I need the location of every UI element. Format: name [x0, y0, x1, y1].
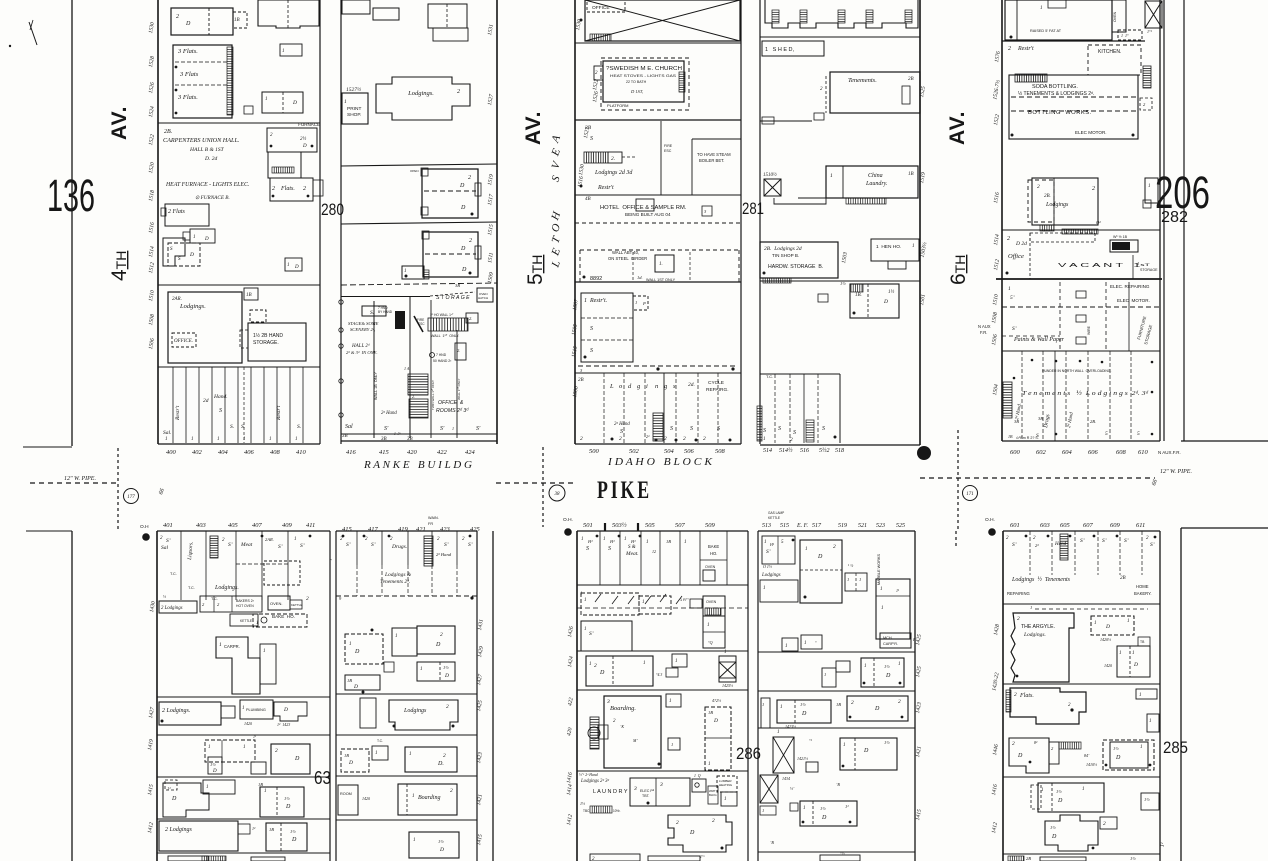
svg-text:Lodgings: Lodgings	[1045, 202, 1069, 208]
svg-text:Lodgings 2ᵈ 3ᵈ: Lodgings 2ᵈ 3ᵈ	[580, 778, 610, 784]
svg-text:S: S	[717, 426, 720, 432]
svg-text:S.: S.	[297, 424, 301, 430]
small dwellings lot 1514	[190, 229, 215, 243]
svg-text:1: 1	[589, 662, 592, 667]
svg-text:1B: 1B	[246, 293, 252, 298]
svg-text:1: 1	[707, 623, 710, 628]
svg-text:3B: 3B	[407, 437, 413, 442]
svg-text:2: 2	[619, 436, 622, 442]
hotel hatch bar	[584, 152, 608, 163]
svg-text:1½: 1½	[1144, 797, 1150, 802]
svg-text:N AUX: N AUX	[978, 324, 991, 329]
svg-text:O.H: O.H	[140, 524, 149, 530]
svg-text:HOME: HOME	[1136, 584, 1149, 589]
china laundry	[826, 166, 918, 198]
svg-text:1: 1	[635, 300, 637, 305]
svg-text:S’: S’	[1124, 538, 1129, 544]
lodgings 2B block282	[1032, 178, 1098, 225]
svg-text:BAKERS 2³: BAKERS 2³	[236, 599, 255, 603]
svg-text:1: 1	[675, 659, 678, 664]
svg-text:D: D	[171, 796, 177, 802]
row line 777b	[1003, 776, 1160, 778]
svg-text:D.: D.	[437, 761, 444, 767]
svg-text:BOILER BET.: BOILER BET.	[699, 158, 724, 163]
col2 row3	[761, 698, 770, 728]
mid row dwellings	[205, 740, 255, 762]
svg-text:410: 410	[296, 449, 307, 456]
svg-text:401: 401	[163, 522, 173, 529]
svg-text:D: D	[1133, 662, 1138, 668]
svg-text:422: 422	[437, 449, 448, 456]
svg-text:3B: 3B	[1014, 419, 1019, 424]
oven tower	[1112, 0, 1126, 32]
svg-text:1½: 1½	[884, 664, 890, 669]
svg-text:S’: S’	[1150, 542, 1155, 548]
col2 row2	[822, 668, 836, 687]
svg-text:1: 1	[880, 587, 883, 592]
svg-text:1½: 1½	[840, 281, 846, 286]
svg-text:416: 416	[346, 449, 357, 456]
stage S box	[362, 306, 386, 316]
svg-text:2½: 2½	[300, 137, 307, 142]
svg-text:2.: 2.	[611, 156, 615, 162]
svg-text:ELEC. REPAIRING: ELEC. REPAIRING	[1110, 284, 1150, 289]
svg-text:521: 521	[858, 523, 867, 529]
svg-text:Meat.: Meat.	[625, 551, 639, 557]
svg-text:ROOM: ROOM	[340, 792, 352, 796]
svg-text:506: 506	[684, 448, 695, 455]
svg-text:2: 2	[594, 663, 597, 669]
svg-text:1B: 1B	[269, 827, 274, 832]
svg-text:½ TENEMENTS & LODGINGS 2ᵈ.: ½ TENEMENTS & LODGINGS 2ᵈ.	[1018, 90, 1094, 97]
row line col1 651	[577, 650, 748, 652]
tenements 281	[830, 72, 920, 113]
svg-text:CARPR.: CARPR.	[224, 644, 240, 649]
lot line y165 block280 right col	[341, 164, 497, 166]
svg-text:1: 1	[242, 706, 245, 711]
svg-text:R A N K E B U I L D G: R A N K E B U I L D G	[363, 460, 472, 471]
svg-text:403: 403	[196, 522, 207, 529]
svg-text:2: 2	[703, 436, 706, 442]
lone houses right	[1136, 689, 1157, 699]
svg-text:600: 600	[1010, 449, 1021, 456]
row 285 lower1	[1038, 783, 1104, 812]
svg-text:1½: 1½	[800, 702, 806, 707]
street: Pike upper edge dashes (water pipe line left)	[30, 482, 118, 484]
svg-text:HOT OVEN: HOT OVEN	[236, 604, 254, 608]
svg-text:?SWEDISH M E. CHURCH: ?SWEDISH M E. CHURCH	[606, 66, 682, 72]
svg-text:STORAGE.: STORAGE.	[253, 340, 279, 346]
hardware storage building	[760, 242, 838, 278]
svg-text:S: S	[586, 546, 589, 552]
svg-text:°4.3: °4.3	[656, 673, 662, 677]
svg-text:Restr't: Restr't	[276, 405, 282, 421]
svg-text:⊙¹Rm R 2? S.: ⊙¹Rm R 2? S.	[1016, 436, 1039, 440]
svg-text:1³ 1423: 1³ 1423	[277, 722, 290, 727]
row 656 dwellings D	[586, 656, 653, 686]
svg-text:508: 508	[715, 448, 726, 455]
valve circle 38	[549, 485, 565, 501]
svg-text:1 HEN HO.: 1 HEN HO.	[876, 244, 901, 250]
svg-text:HEAT STOVES - LIGHTS GAS: HEAT STOVES - LIGHTS GAS	[610, 74, 677, 78]
svg-text:500: 500	[589, 448, 600, 455]
svg-text:Hand.: Hand.	[213, 394, 228, 400]
svg-text:D: D	[1057, 798, 1063, 804]
svg-text:i: i	[646, 383, 648, 390]
row line 771	[577, 770, 748, 772]
svg-text:1: 1	[420, 667, 423, 672]
svg-text:406: 406	[244, 449, 255, 456]
svg-text:1 1°: 1 1°	[1121, 33, 1129, 38]
svg-text:1: 1	[375, 751, 378, 756]
svg-text:D. 2d: D. 2d	[204, 156, 217, 162]
svg-text:S’: S’	[278, 544, 283, 550]
svg-text:1: 1	[584, 627, 587, 632]
svg-text:1421½: 1421½	[797, 756, 808, 761]
svg-text:2: 2	[275, 748, 278, 754]
svg-text:OPEN: OPEN	[410, 169, 419, 173]
svg-text:1½: 1½	[1113, 746, 1119, 751]
third hand circle label	[430, 353, 435, 358]
stage black rect	[395, 311, 405, 329]
svg-text:D: D	[885, 673, 891, 679]
svg-text:1: 1	[804, 641, 807, 646]
svg-text:1: 1	[762, 808, 764, 813]
svg-text:P: P	[642, 301, 646, 306]
svg-text:1: 1	[724, 650, 727, 655]
lower-right block outline	[1002, 531, 1004, 861]
row 285 lower2	[1045, 815, 1098, 851]
svg-text:2: 2	[457, 89, 460, 95]
svg-text:ESC: ESC	[664, 149, 672, 153]
svg-text:1: 1	[243, 437, 246, 442]
svg-text:OFFICE &: OFFICE &	[438, 400, 464, 406]
2 lodgings row 700	[159, 702, 221, 725]
svg-text:1.: 1.	[659, 262, 663, 267]
svg-text:505: 505	[645, 522, 656, 529]
svg-text:Laundry.: Laundry.	[865, 181, 888, 187]
svg-text:1: 1	[763, 437, 766, 442]
svg-text:T.C.: T.C.	[170, 572, 177, 576]
svg-text:CYCLE: CYCLE	[708, 380, 724, 386]
svg-text:S.: S.	[241, 424, 245, 430]
svg-text:D: D	[460, 205, 466, 211]
svg-text:TBT.: TBT.	[642, 794, 650, 798]
carpenter shop T building	[216, 637, 260, 694]
svg-text:1: 1	[395, 634, 398, 639]
svg-text:S: S	[690, 426, 693, 432]
svg-text:1: 1	[777, 730, 780, 735]
annex with hatch	[402, 266, 424, 279]
svg-text:WALL 1B ONLY: WALL 1B ONLY	[374, 372, 378, 400]
svg-text:1: 1	[684, 540, 687, 545]
svg-text:8892: 8892	[590, 276, 602, 282]
big dwelling bottom mid	[668, 815, 732, 852]
svg-text:1: 1	[1119, 651, 1122, 656]
svg-text:S’: S’	[300, 543, 305, 549]
svg-text:L A U N D R Y: L A U N D R Y	[593, 789, 628, 795]
building lot 1522 small pair	[262, 92, 303, 113]
svg-text:D: D	[461, 267, 467, 273]
svg-text:T.C.: T.C.	[377, 739, 383, 743]
svg-text:HATCH: HATCH	[478, 296, 488, 300]
svg-text:D: D	[354, 649, 360, 655]
X box row 656	[719, 656, 736, 682]
svg-text:Tenements 2ᵈ.: Tenements 2ᵈ.	[380, 579, 410, 585]
restrt stack	[581, 293, 633, 362]
bottling east annex	[1143, 66, 1151, 88]
svg-text:S’: S’	[468, 542, 473, 548]
2 lodgings bottom row	[159, 821, 238, 851]
svg-text:513: 513	[762, 523, 771, 529]
pipe junction 6th/Pike	[957, 430, 959, 530]
Swedish M E Church	[601, 58, 689, 110]
svg-text:1: 1	[646, 540, 649, 545]
svg-text:BAKERY.: BAKERY.	[1134, 591, 1152, 596]
svg-text:1 R°°: 1 R°°	[680, 598, 689, 602]
street: 4th Ave left boundary (lower)	[26, 530, 72, 532]
svg-text:N AUX.F.R.: N AUX.F.R.	[1158, 450, 1181, 455]
svg-text:1420: 1420	[1104, 663, 1112, 668]
svg-text:H¹: H¹	[769, 542, 775, 547]
svg-text:OFFICE: OFFICE	[592, 5, 610, 11]
svg-text:Lodgings: Lodgings	[761, 573, 781, 578]
svg-text:2B: 2B	[1120, 576, 1126, 581]
svg-text:S: S	[590, 348, 593, 354]
svg-text:HEAT FURNACE - LIGHTS ELEC.: HEAT FURNACE - LIGHTS ELEC.	[165, 182, 249, 188]
svg-text:AV.: AV.	[946, 110, 969, 145]
bottom hatch	[202, 856, 226, 861]
svg-text:3B: 3B	[1038, 416, 1043, 421]
svg-text:1: 1	[295, 437, 298, 442]
svg-text:T.C.: T.C.	[766, 374, 773, 379]
svg-text:ON STEEL GIRDER: ON STEEL GIRDER	[608, 256, 647, 261]
svg-text:°Q: °Q	[708, 640, 713, 645]
svg-text:1: 1	[413, 838, 416, 843]
svg-text:THE ARGYLE.: THE ARGYLE.	[1021, 624, 1055, 630]
svg-text:1: 1	[294, 537, 297, 542]
svg-text:2: 2	[664, 436, 667, 442]
svg-text:12" W. PIPE.: 12" W. PIPE.	[64, 476, 96, 482]
svg-text:T.C.: T.C.	[211, 597, 218, 601]
svg-text:1425½: 1425½	[722, 683, 733, 688]
buildings lot 1512 cluster	[163, 238, 185, 266]
svg-text:D: D	[713, 718, 718, 724]
svg-text:2: 2	[683, 436, 686, 442]
svg-text:1: 1	[1148, 184, 1151, 189]
bottom partial row 285	[1003, 853, 1160, 855]
svg-text:603: 603	[1040, 522, 1051, 529]
svg-text:H¹: H¹	[630, 539, 636, 544]
svg-text:1: 1	[898, 662, 901, 667]
svg-text:2 Lodgings.: 2 Lodgings.	[162, 708, 190, 714]
fire escape diagonal	[414, 316, 423, 332]
svg-text:2ᵈ & 3ᵈ IN ONE.: 2ᵈ & 3ᵈ IN ONE.	[346, 350, 378, 355]
svg-text:2: 2	[468, 175, 471, 181]
svg-text:1: 1	[269, 437, 272, 442]
svg-text:1½: 1½	[210, 762, 216, 767]
line under storage	[760, 280, 920, 282]
svg-text:1: 1	[1008, 286, 1011, 292]
svg-text:W¹ ½ 1B: W¹ ½ 1B	[1113, 235, 1128, 239]
shop lots 285	[1029, 531, 1031, 575]
svg-text:1: 1	[763, 586, 766, 591]
svg-text:TB: TB	[1140, 640, 1145, 644]
svg-text:REPAIRING: REPAIRING	[1007, 591, 1030, 596]
corner scratch marks	[29, 22, 37, 45]
svg-text:D: D	[189, 252, 194, 258]
svg-text:1½: 1½	[820, 806, 826, 811]
svg-text:D: D	[348, 760, 353, 766]
big warehouse with cross bracing	[585, 0, 740, 41]
theater walls	[373, 301, 375, 438]
hydrant dot at 6th and Pike	[917, 446, 931, 460]
svg-text:611: 611	[1136, 522, 1145, 529]
svg-text:BAKE: BAKE	[708, 544, 719, 549]
row line 690-691	[577, 689, 748, 691]
svg-text:Restr't: Restr't	[175, 405, 181, 421]
hotel office line	[575, 194, 741, 196]
lower-left col2 lots	[356, 531, 358, 565]
svg-text:4B: 4B	[585, 197, 591, 202]
svg-text:2d.: 2d.	[688, 382, 695, 388]
svg-text:2: 2	[1007, 236, 1010, 242]
svg-text:3B: 3B	[455, 283, 460, 288]
right inner walls	[430, 300, 432, 438]
svg-text:D: D	[292, 100, 297, 106]
svg-text:2: 2	[1017, 616, 1020, 622]
svg-text:2B.: 2B.	[164, 129, 172, 135]
svg-text:KITCHEN.: KITCHEN.	[1098, 49, 1121, 55]
svg-text:1½: 1½	[438, 839, 444, 844]
svg-text:2ᵈ Hand: 2ᵈ Hand	[381, 410, 397, 416]
svg-text:D: D	[801, 711, 807, 717]
svg-text:⊙ FURNACE B.: ⊙ FURNACE B.	[195, 195, 230, 201]
svg-text:1: 1	[1132, 651, 1135, 656]
svg-text:602: 602	[1036, 449, 1047, 456]
svg-text:D: D	[1051, 834, 1057, 840]
col2 row line 652	[758, 651, 915, 653]
svg-text:605: 605	[1060, 522, 1071, 529]
svg-text:D: D	[444, 673, 449, 679]
svg-text:1½: 1½	[290, 829, 296, 834]
svg-text:½’: ½’	[790, 786, 795, 791]
barn building	[850, 284, 899, 318]
line under top building	[1002, 40, 1145, 42]
svg-text:HALL B & 1ST: HALL B & 1ST	[189, 147, 225, 153]
svg-text:515: 515	[780, 523, 789, 529]
svg-text:SODA BOTTLING.: SODA BOTTLING.	[1032, 84, 1078, 90]
lot line under warehouse	[575, 42, 741, 44]
svg-text:HOTEL OFFICE & SAMPLE RM.: HOTEL OFFICE & SAMPLE RM.	[600, 205, 687, 211]
svg-text:2d: 2d	[203, 398, 209, 404]
svg-text:1: 1	[282, 49, 285, 54]
svg-text:1: 1	[764, 540, 767, 545]
svg-text:REPAIRG.: REPAIRG.	[706, 387, 729, 393]
svg-text:1 Q: 1 Q	[694, 774, 701, 778]
svg-text:WIRE: WIRE	[1087, 325, 1091, 335]
svg-text:¹ ½: ¹ ½	[848, 563, 853, 568]
svg-text:TBC: TBC	[583, 809, 590, 813]
svg-text:H¹: H¹	[587, 539, 593, 544]
pipe junction 4th/Pike	[117, 448, 119, 531]
svg-text:FR: FR	[428, 522, 433, 526]
svg-text:610: 610	[1138, 449, 1149, 456]
svg-text:1: 1	[881, 606, 884, 611]
svg-text:1: 1	[256, 621, 259, 626]
svg-text:402: 402	[192, 449, 203, 456]
svg-text:1: 1	[349, 642, 352, 647]
svg-text:1: 1	[193, 235, 196, 240]
svg-text:S’: S’	[1102, 538, 1107, 544]
svg-text:1B: 1B	[347, 678, 352, 683]
col2 tall D building	[800, 540, 842, 603]
svg-text:1½: 1½	[1056, 789, 1062, 794]
svg-text:KETTLE: KETTLE	[291, 603, 302, 607]
svg-text:517: 517	[812, 523, 822, 529]
svg-text:1: 1	[1127, 619, 1130, 624]
svg-text:D 2d: D 2d	[1015, 241, 1027, 247]
office row 282	[1002, 229, 1160, 231]
svg-text:Restr't: Restr't	[1017, 46, 1034, 52]
block 280 outline left column	[157, 0, 159, 444]
small dwelling pair	[285, 258, 302, 271]
svg-text:Boarding: Boarding	[418, 795, 440, 801]
small boxes under marble	[782, 638, 798, 651]
svg-text:ROOMS 2ᵈ 3ᵈ: ROOMS 2ᵈ 3ᵈ	[436, 408, 469, 414]
svg-text:22 TO BATH: 22 TO BATH	[626, 80, 647, 84]
svg-text:2.: 2.	[457, 348, 460, 353]
row line 285 top	[1003, 603, 1160, 605]
svg-text:D: D	[1017, 753, 1023, 759]
svg-text:1: 1	[643, 661, 646, 666]
svg-text:5½2: 5½2	[819, 447, 830, 454]
svg-text:D: D	[302, 144, 307, 149]
svg-text:½: ½	[163, 594, 166, 599]
svg-text:2: 2	[898, 699, 901, 705]
svg-text:HALL 2ᵈ: HALL 2ᵈ	[351, 343, 370, 349]
svg-text:2: 2	[1037, 184, 1040, 190]
svg-text:PIKE: PIKE	[597, 477, 652, 504]
svg-text:407: 407	[252, 522, 263, 529]
svg-text:2: 2	[676, 820, 679, 826]
lodgings building upper right col280	[376, 77, 470, 120]
svg-text:1½: 1½	[1130, 856, 1136, 861]
col2 286 top lots	[762, 536, 795, 564]
svg-text:2: 2	[580, 436, 583, 442]
svg-text:Drugs.: Drugs.	[391, 544, 407, 550]
svg-text:509: 509	[705, 522, 716, 529]
svg-text:Sal: Sal	[345, 424, 353, 430]
svg-text:KETTLE: KETTLE	[240, 619, 252, 623]
svg-text:Lodgings.: Lodgings.	[214, 585, 239, 591]
svg-text:S.: S.	[230, 424, 234, 430]
lower-left block outline	[156, 531, 158, 861]
svg-text:1B: 1B	[1008, 434, 1013, 439]
svg-text:84’: 84’	[1084, 753, 1090, 758]
svg-text:WALL ABT 40,: WALL ABT 40,	[612, 250, 639, 255]
svg-text:2: 2	[176, 14, 179, 20]
svg-text:405: 405	[228, 522, 239, 529]
svg-text:3 Flats: 3 Flats	[179, 71, 199, 78]
svg-text:2AR.: 2AR.	[172, 297, 182, 302]
svg-text:2: 2	[303, 186, 306, 192]
svg-text:Restr't: Restr't	[597, 185, 614, 191]
svg-text:1: 1	[409, 752, 412, 757]
svg-text:D: D	[1115, 755, 1121, 761]
svg-text:1: 1	[1139, 693, 1142, 698]
svg-text:2B. Lodgings 2d: 2B. Lodgings 2d	[764, 246, 802, 252]
